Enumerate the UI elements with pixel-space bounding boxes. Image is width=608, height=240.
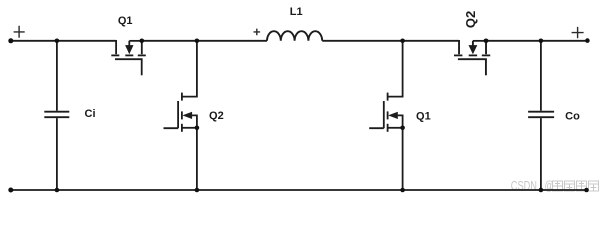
svg-text:Q2: Q2	[463, 11, 478, 28]
svg-text:L1: L1	[290, 6, 303, 18]
svg-text:Q1: Q1	[118, 15, 133, 27]
svg-text:Co: Co	[565, 111, 580, 123]
svg-text:CSDN: CSDN	[511, 180, 537, 194]
svg-text:Q1: Q1	[416, 111, 431, 123]
svg-text:Ci: Ci	[85, 108, 96, 120]
svg-text:Q2: Q2	[209, 110, 224, 122]
